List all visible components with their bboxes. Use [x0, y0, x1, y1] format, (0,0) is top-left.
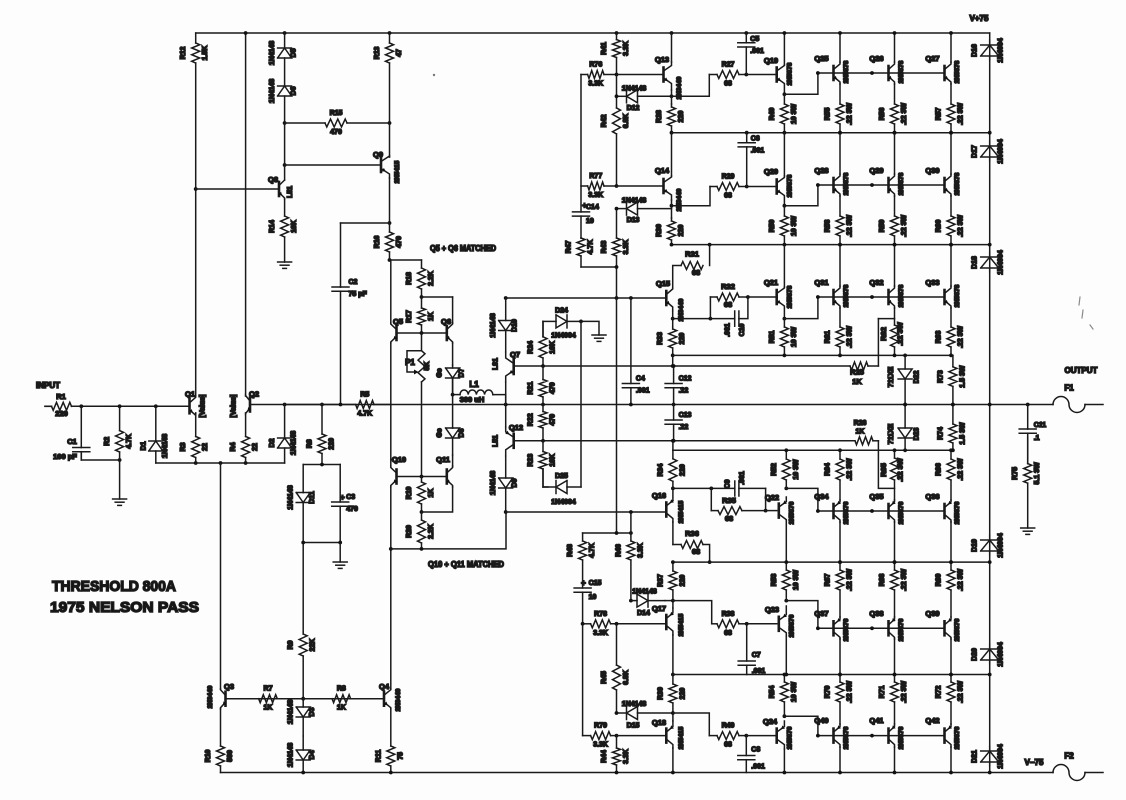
junction top rail Q13	[670, 31, 674, 35]
svg-text:.22 3W: .22 3W	[958, 681, 965, 704]
wire R13 to Q9	[389, 123, 391, 157]
svg-text:3.3K: 3.3K	[623, 240, 630, 255]
wire Q38 collector	[894, 639, 896, 675]
diode D22 711XE	[898, 355, 912, 404]
junction D24/ground stub	[579, 320, 583, 324]
wire row5 base jog	[786, 601, 818, 629]
svg-text:22K: 22K	[310, 639, 317, 652]
svg-text:C4: C4	[636, 376, 645, 383]
junction D22 line A	[903, 354, 907, 358]
junction D6/R15	[283, 121, 287, 125]
svg-text:68: 68	[692, 268, 700, 277]
junction row2 jog	[816, 183, 820, 187]
junction Q25 collector rail	[838, 31, 842, 35]
svg-text:C10: C10	[739, 323, 746, 336]
capacitor C2 75pF	[332, 279, 368, 405]
junction R69 top	[949, 560, 953, 564]
transistor Q1	[185, 390, 196, 416]
svg-text:THRESHOLD 800A: THRESHOLD 800A	[52, 578, 176, 595]
diode D16 1N4004	[972, 38, 1005, 63]
svg-text:68: 68	[724, 300, 732, 309]
svg-text:.001: .001	[739, 471, 746, 485]
resistor R34 220	[657, 450, 686, 500]
resistor R10 560	[205, 709, 234, 773]
svg-text:R76: R76	[589, 62, 602, 69]
diode D20 1N4004	[972, 642, 1005, 667]
svg-text:1N4148: 1N4148	[622, 85, 647, 92]
transistor Q11	[436, 455, 452, 487]
svg-text:68: 68	[725, 514, 733, 523]
svg-text:2N5878: 2N5878	[843, 172, 850, 195]
wire lower drive rail	[506, 511, 665, 513]
junction Q21 emitter node	[783, 317, 787, 321]
svg-text:.001: .001	[725, 323, 732, 337]
svg-text:V−75: V−75	[1025, 758, 1044, 767]
resistor R36	[673, 529, 710, 562]
junction R51 line A	[783, 354, 787, 358]
junction R20 bottom	[420, 547, 424, 551]
svg-text:D3: D3	[309, 707, 316, 716]
junction R57 rail	[949, 131, 953, 135]
junction rail463/Q3drop	[219, 461, 223, 465]
transistor Q4	[379, 682, 402, 711]
junction line C tie	[671, 439, 675, 443]
svg-text:+: +	[582, 201, 587, 210]
transistor Q5	[391, 317, 403, 343]
wire bias vertical	[616, 267, 618, 298]
svg-text:R56: R56	[879, 107, 886, 120]
wire Q26 collector	[894, 33, 896, 62]
svg-text:R48: R48	[567, 544, 574, 557]
label C15 plus	[581, 579, 586, 588]
svg-text:Q32: Q32	[869, 278, 883, 287]
junction drive rail/D10	[504, 296, 508, 300]
junction C8/R40	[744, 734, 748, 738]
svg-text:2N5876: 2N5876	[789, 614, 796, 637]
junction Q22 emitter node	[784, 487, 788, 491]
junction row6 jog	[816, 734, 820, 738]
wire R29 to Q20 base	[747, 186, 777, 188]
resistor R28 220	[656, 104, 685, 133]
svg-text:Ge: Ge	[437, 368, 444, 377]
wire Q10 emitter col	[390, 487, 392, 689]
svg-text:C12: C12	[679, 376, 692, 383]
junction R30 row2 rail	[670, 243, 674, 247]
svg-text:6.8K: 6.8K	[623, 114, 630, 129]
resistor R27 68	[709, 62, 746, 88]
svg-text:220: 220	[678, 111, 685, 123]
svg-text:2N5878: 2N5878	[954, 284, 961, 307]
capacitor C13 .22	[665, 405, 691, 441]
svg-text:Q13: Q13	[655, 55, 669, 64]
svg-text:4.7K: 4.7K	[357, 411, 372, 418]
svg-text:3.3K: 3.3K	[623, 41, 630, 56]
transistor Q16	[652, 491, 685, 523]
svg-text:Q19: Q19	[764, 56, 778, 65]
wire Q34 collector	[839, 522, 841, 562]
ground R75 ground	[1021, 528, 1035, 534]
svg-text:2N5878: 2N5878	[898, 60, 905, 83]
svg-text:3.3K: 3.3K	[588, 81, 603, 88]
label Q1 value	[200, 395, 207, 418]
resistor R63 .22 3W	[936, 308, 965, 355]
svg-text:.22: .22	[679, 388, 689, 395]
junction R42/R77	[615, 184, 619, 188]
svg-text:2N5878: 2N5878	[787, 62, 794, 85]
svg-text:68: 68	[724, 742, 732, 749]
svg-text:Q9: Q9	[373, 150, 383, 159]
svg-text:.001: .001	[750, 48, 764, 55]
wire lower bias link	[391, 512, 506, 549]
svg-text:560: 560	[227, 750, 234, 762]
svg-text:D20: D20	[972, 648, 979, 661]
wire bottom V- rail	[221, 772, 1054, 774]
resistor R9 22K	[288, 632, 317, 699]
ground Q8 ground	[278, 262, 292, 268]
svg-text:R55: R55	[825, 107, 832, 120]
resistor R44 3.3K	[601, 736, 630, 773]
wire R27 to Q19 base	[746, 74, 776, 76]
junction R32 right	[746, 295, 750, 299]
junction R35 right	[764, 509, 768, 513]
resistor R56	[879, 84, 908, 133]
svg-text:2N5415: 2N5415	[678, 500, 685, 523]
svg-text:.22 3W: .22 3W	[901, 681, 908, 704]
resistor R26	[854, 420, 879, 445]
transistor Q24	[763, 717, 794, 749]
resistor R8 1K	[303, 686, 378, 712]
svg-text:.22 3W: .22 3W	[958, 569, 965, 592]
svg-text:220: 220	[679, 575, 686, 587]
junction R12/Q8 base	[194, 187, 198, 191]
junction R52 top	[784, 448, 788, 452]
svg-text:R10: R10	[205, 749, 212, 762]
svg-text:R24: R24	[528, 341, 535, 354]
resistor R79 3.3K	[583, 723, 617, 749]
junction Q14 emitter/D13	[670, 204, 674, 208]
wire Q6 emitter	[452, 343, 454, 365]
svg-text:.22 3W: .22 3W	[901, 215, 908, 238]
svg-text:1N4004: 1N4004	[998, 38, 1005, 63]
svg-text:1N4004: 1N4004	[998, 250, 1005, 275]
svg-text:Q15: Q15	[656, 279, 670, 288]
junction top rail D5	[283, 31, 287, 35]
wire CD tie	[672, 441, 674, 451]
svg-text:75: 75	[397, 752, 404, 760]
svg-text:D23: D23	[914, 427, 921, 440]
wire left bias col upper	[580, 75, 582, 212]
svg-text:R57: R57	[936, 107, 943, 120]
svg-text:220: 220	[679, 333, 686, 345]
wire R46 col	[630, 512, 632, 533]
wire Q13 collector up	[671, 33, 673, 62]
svg-text:1.5K: 1.5K	[202, 46, 209, 61]
junction R6 bottom	[320, 463, 324, 467]
junction R9/D3/R7R8	[301, 697, 305, 701]
transistor Q22	[765, 493, 796, 524]
resistor R52 10 3W	[771, 450, 800, 488]
svg-text:F2: F2	[1064, 752, 1074, 761]
junction R62 line A	[893, 354, 897, 358]
svg-text:.22 3W: .22 3W	[847, 215, 854, 238]
svg-text:470: 470	[550, 414, 557, 426]
svg-text:711XE: 711XE	[888, 366, 895, 387]
svg-text:2N5415: 2N5415	[394, 160, 401, 183]
wire R2 bottom to ground	[119, 460, 121, 499]
resistor R71	[879, 675, 908, 725]
diode D7 Ge	[437, 365, 466, 395]
junction D column row4	[988, 560, 992, 564]
svg-text:220: 220	[55, 409, 68, 418]
junction row2 rail R31	[708, 243, 712, 247]
wire Q39 collector	[950, 639, 952, 675]
svg-text:1K: 1K	[856, 429, 865, 436]
junction Q18 collector rail	[671, 771, 675, 775]
junction top rail R41	[615, 31, 619, 35]
transistor Q23	[765, 605, 796, 637]
wire Q10-Q11 base line	[397, 476, 447, 478]
resistor R73 1.5 3W	[937, 355, 966, 404]
wire drop to Q3 collector	[220, 463, 222, 689]
label V+75	[970, 14, 989, 23]
wire Q18 base	[617, 735, 665, 737]
svg-text:Q36: Q36	[925, 492, 939, 501]
svg-text:R50: R50	[769, 219, 776, 232]
svg-text:INPUT: INPUT	[36, 381, 60, 390]
capacitor C10	[710, 297, 748, 337]
wire C3 to ground	[339, 543, 341, 563]
svg-text:D15: D15	[627, 723, 640, 730]
junction row1 base mid	[870, 71, 874, 75]
junction Q33 collector rail	[949, 243, 953, 247]
wire Q11 collector	[452, 455, 454, 466]
capacitor C5 .001	[738, 33, 764, 75]
wire D6 to Q9 base node	[284, 123, 286, 165]
svg-text:220: 220	[678, 225, 685, 237]
svg-text:R12: R12	[180, 46, 187, 59]
svg-text:10 3W: 10 3W	[791, 326, 798, 347]
junction R71 top	[893, 673, 897, 677]
svg-text:R75: R75	[1012, 467, 1019, 480]
wire D24 gnd	[581, 321, 599, 335]
junction main/D1	[154, 404, 158, 408]
svg-text:4.7K: 4.7K	[589, 543, 596, 558]
svg-text:R26: R26	[854, 420, 867, 427]
junction D13 left	[615, 207, 619, 211]
svg-text:2.2K: 2.2K	[428, 524, 435, 539]
resistor R1 220	[45, 402, 72, 410]
wire R27 jog	[672, 75, 710, 97]
svg-text:1N4148: 1N4148	[490, 471, 497, 496]
svg-text:R7: R7	[264, 686, 273, 693]
svg-text:R9: R9	[288, 640, 295, 649]
svg-text:2N3440: 2N3440	[207, 685, 214, 708]
transistor Q32	[869, 278, 905, 308]
wire Q27 collector	[950, 33, 952, 62]
junction R67 top	[838, 560, 842, 564]
wire Q36 collector	[950, 522, 952, 562]
wire top V+ rail	[196, 32, 990, 34]
svg-text:R49: R49	[769, 107, 776, 120]
svg-text:R39: R39	[657, 687, 664, 700]
wire Q20 collector	[783, 133, 785, 176]
svg-text:Q30: Q30	[925, 166, 939, 175]
svg-text:.1: .1	[1034, 435, 1040, 442]
junction C4 main	[629, 403, 633, 407]
resistor R17 1K	[406, 297, 435, 333]
junction Q34 collector rail	[838, 560, 842, 564]
svg-text:R15: R15	[330, 110, 343, 117]
svg-text:1N4004: 1N4004	[551, 499, 576, 506]
junction row1 rail C6	[745, 131, 749, 135]
svg-text:C8: C8	[751, 747, 760, 754]
wire row4 base jog	[786, 488, 818, 511]
junction R18/R17	[420, 295, 424, 299]
wire to C3	[339, 465, 341, 501]
resistor R69	[936, 562, 965, 617]
diode D12 1N4148	[617, 85, 672, 112]
wire C2 top	[341, 222, 390, 224]
svg-text:R52: R52	[771, 463, 778, 476]
junction R59 rail	[893, 243, 897, 247]
svg-text:Q10: Q10	[392, 455, 406, 464]
wire row1 base rail	[818, 72, 945, 74]
wire Q1 collector up	[195, 189, 197, 396]
svg-text:2N5876: 2N5876	[787, 726, 794, 749]
wire R24 top	[542, 321, 544, 336]
junction R60 rail	[949, 243, 953, 247]
svg-text:D5: D5	[291, 48, 298, 57]
svg-text:R78: R78	[594, 611, 607, 618]
svg-text:3.3K: 3.3K	[588, 192, 603, 199]
wire main line Q2-F1	[250, 404, 1053, 406]
wire row6 base rail	[818, 735, 945, 737]
svg-text:22: 22	[252, 443, 259, 451]
wire Q30 collector	[950, 133, 952, 174]
svg-text:5K: 5K	[424, 362, 431, 371]
resistor R74 1.5 3W	[937, 405, 966, 451]
resistor R47 4.7K	[566, 238, 595, 267]
wire F2 right stub	[1085, 772, 1103, 774]
transistor Q13	[655, 55, 683, 99]
diode D6 1N4148	[269, 79, 298, 123]
junction R78 left	[581, 622, 585, 626]
transistor Q21	[764, 278, 794, 319]
svg-text:10K: 10K	[291, 220, 298, 233]
svg-text:R46: R46	[615, 544, 622, 557]
svg-text:1N4148: 1N4148	[269, 79, 276, 104]
svg-text:R60: R60	[936, 219, 943, 232]
svg-text:C2: C2	[349, 279, 358, 286]
junction Q24 emitter node	[783, 714, 787, 718]
svg-text:L51: L51	[287, 186, 294, 198]
diode D3 1N4148	[288, 699, 317, 736]
ground D24 ground	[592, 335, 606, 341]
capacitor C15 10	[574, 580, 601, 624]
capacitor C11 .1	[1019, 422, 1046, 464]
svg-text:R8: R8	[337, 686, 346, 693]
junction D column row5	[988, 673, 992, 677]
wire R40 to Q24 base	[746, 735, 776, 737]
svg-text:470: 470	[396, 236, 403, 248]
junction row3 base mid	[870, 295, 874, 299]
resistor R50 10 3W	[769, 206, 798, 245]
svg-text:Q2: Q2	[249, 390, 259, 399]
junction row5 base mid	[870, 626, 874, 630]
svg-text:10: 10	[586, 218, 594, 225]
svg-text:68: 68	[692, 547, 700, 556]
resistor R67	[825, 562, 854, 617]
junction R54 top	[783, 673, 787, 677]
wire Q40 collector	[839, 747, 841, 773]
resistor R4 22	[230, 413, 259, 463]
junction Q32 collector rail	[893, 243, 897, 247]
diode D4 1N4148	[288, 736, 317, 773]
svg-text:10 3W: 10 3W	[791, 215, 798, 236]
junction C12 main	[672, 403, 676, 407]
junction Q35 collector rail	[893, 560, 897, 564]
junction C3 ground	[338, 541, 342, 545]
label C14 plus	[582, 201, 587, 210]
resistor R59	[879, 196, 908, 245]
junction R44 bottom rail	[615, 771, 619, 775]
wire Q7 base line / line B	[514, 365, 850, 367]
junction R35 left	[709, 487, 713, 491]
svg-text:+: +	[340, 493, 345, 502]
junction Q28 collector rail	[838, 131, 842, 135]
svg-text:100 pF: 100 pF	[53, 452, 77, 461]
diode D1 1N4148	[140, 406, 169, 463]
svg-text:R22: R22	[528, 413, 535, 426]
svg-text:2N5876: 2N5876	[843, 618, 850, 641]
svg-text:R69: R69	[936, 573, 943, 586]
svg-text:2N5876: 2N5876	[843, 726, 850, 749]
svg-text:D22: D22	[914, 370, 921, 383]
svg-text:R16: R16	[374, 235, 381, 248]
wire Q5-Q6 base line	[397, 332, 447, 334]
svg-text:R53: R53	[771, 573, 778, 586]
svg-text:R54: R54	[769, 685, 776, 698]
resistor R61 .22 3W	[825, 308, 854, 355]
resistor R15 470	[285, 110, 390, 136]
diode D17 1N4004	[972, 139, 1005, 164]
transistor Q26	[869, 54, 905, 84]
junction D23 line D	[903, 448, 907, 452]
svg-text:D17: D17	[972, 145, 979, 158]
transistor Q18	[652, 718, 685, 749]
resistor R22 470	[528, 405, 557, 441]
junction main/R6	[320, 403, 324, 407]
transistor Q6	[441, 317, 453, 343]
capacitor C4 .001	[622, 298, 649, 405]
resistor R45 6.8K	[601, 624, 630, 713]
wire R40 jog	[673, 713, 709, 736]
svg-text:Q42: Q42	[925, 716, 939, 725]
transistor Q35	[869, 492, 905, 524]
svg-text:Q18: Q18	[652, 718, 666, 727]
svg-text:470: 470	[346, 506, 358, 513]
capacitor C3 470	[332, 494, 358, 543]
svg-text:R41: R41	[601, 42, 608, 55]
junction Q27 collector rail	[949, 31, 953, 35]
label C3 plus	[340, 493, 345, 502]
svg-text:R4: R4	[230, 442, 237, 451]
svg-text:300 uH: 300 uH	[460, 395, 485, 404]
resistor R42 6.8K	[601, 75, 630, 187]
svg-text:.22 3W: .22 3W	[847, 326, 854, 349]
svg-text:D7: D7	[459, 368, 466, 377]
svg-text:3.3K: 3.3K	[637, 543, 644, 558]
